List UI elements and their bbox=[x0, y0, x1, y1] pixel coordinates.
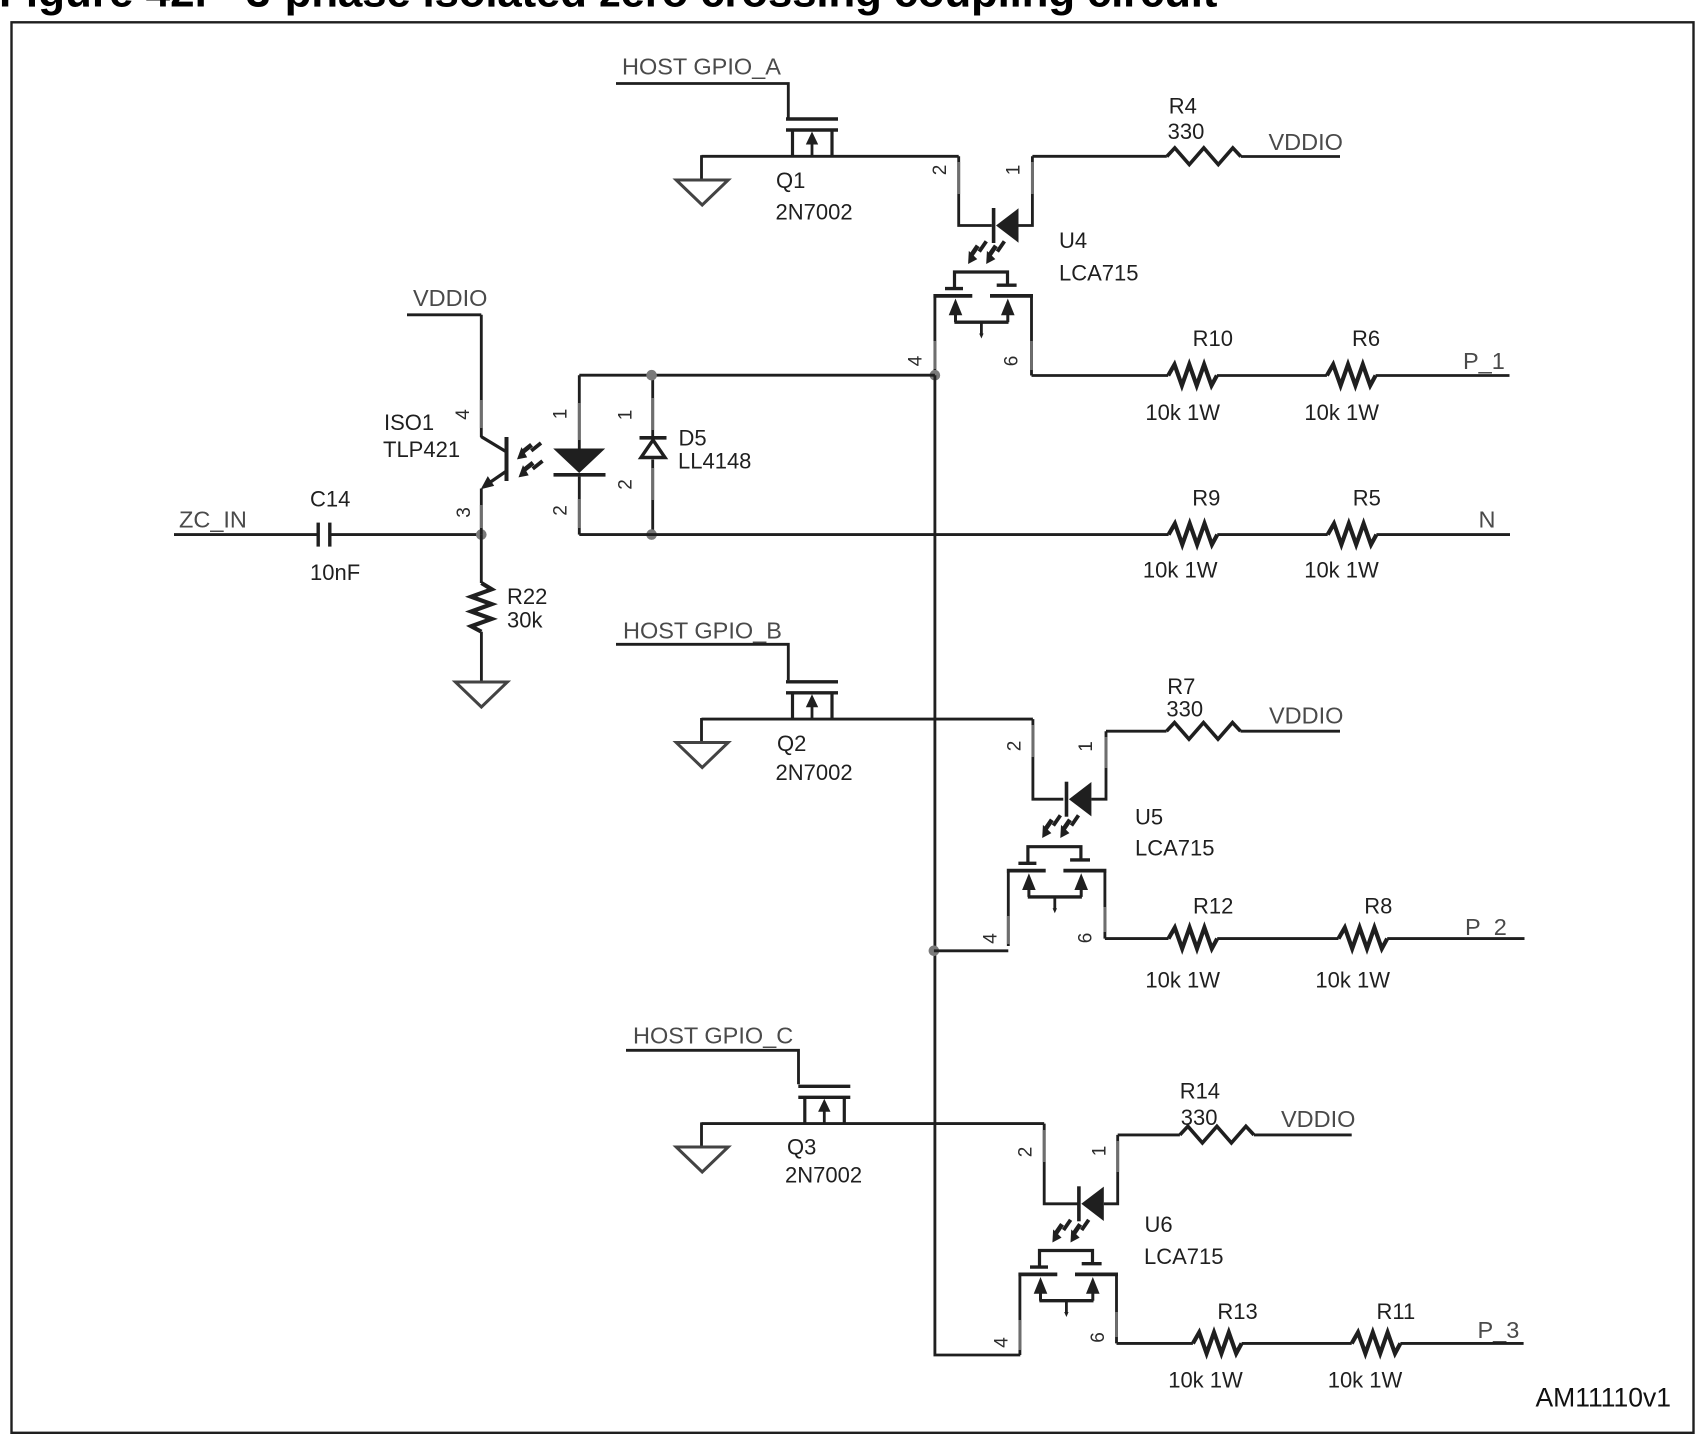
svg-text:1: 1 bbox=[1089, 1146, 1110, 1157]
label U5 LCA715 bbox=[1135, 805, 1215, 861]
resistor R7 bbox=[1167, 723, 1241, 740]
junction (bus / U5 pin 4) bbox=[929, 946, 940, 957]
label R7 330 bbox=[1166, 674, 1203, 722]
pin 2 (U4) bbox=[930, 165, 951, 176]
label R5 10k 1W bbox=[1304, 486, 1381, 583]
label R11 10k 1W bbox=[1328, 1299, 1416, 1392]
wire (bus) bbox=[935, 375, 1020, 1355]
svg-text:AM11110v1: AM11110v1 bbox=[1535, 1383, 1671, 1413]
wire bbox=[702, 155, 959, 158]
svg-text:ISO1: ISO1 bbox=[384, 410, 434, 435]
svg-text:HOST GPIO_B: HOST GPIO_B bbox=[623, 618, 782, 644]
label ISO1 TLP421 bbox=[383, 410, 460, 462]
svg-text:3: 3 bbox=[454, 507, 475, 518]
wire bbox=[1105, 937, 1169, 940]
net label HOST GPIO_A bbox=[616, 54, 788, 118]
svg-text:2: 2 bbox=[1005, 741, 1026, 752]
wire (N net) bbox=[579, 533, 1168, 536]
pin 4 (ISO1) bbox=[453, 409, 474, 420]
svg-text:R4: R4 bbox=[1169, 94, 1197, 119]
resistor R4 bbox=[1167, 148, 1241, 165]
wire bbox=[1032, 374, 1169, 377]
svg-text:R22: R22 bbox=[507, 584, 547, 609]
resistor R5 bbox=[1328, 524, 1377, 545]
svg-text:4: 4 bbox=[906, 355, 927, 366]
wire bbox=[702, 1122, 1045, 1125]
svg-text:2: 2 bbox=[1016, 1147, 1037, 1158]
wire bbox=[1217, 374, 1327, 377]
svg-text:10k 1W: 10k 1W bbox=[1168, 1367, 1243, 1392]
label AM11110v1 bbox=[1535, 1383, 1671, 1413]
svg-text:2N7002: 2N7002 bbox=[776, 200, 853, 225]
label R9 10k 1W bbox=[1143, 486, 1221, 583]
title bbox=[0, 0, 1218, 17]
pin 4 (U4) bbox=[906, 355, 927, 366]
junction (C14 / ISO1 pin 3 / R22) bbox=[476, 529, 487, 540]
svg-text:HOST GPIO_A: HOST GPIO_A bbox=[622, 54, 781, 80]
wire bbox=[1117, 1342, 1193, 1345]
label R12 10k 1W bbox=[1145, 894, 1233, 993]
svg-text:ZC_IN: ZC_IN bbox=[179, 507, 247, 533]
svg-text:R10: R10 bbox=[1193, 326, 1233, 351]
resistor R6 bbox=[1327, 365, 1376, 386]
resistor R8 bbox=[1339, 928, 1388, 949]
svg-text:330: 330 bbox=[1181, 1105, 1218, 1130]
label C14 10nF bbox=[310, 487, 360, 586]
pin 2 (U6) bbox=[1016, 1147, 1037, 1158]
svg-text:30k: 30k bbox=[507, 608, 543, 633]
svg-text:VDDIO: VDDIO bbox=[1269, 129, 1343, 155]
svg-text:1: 1 bbox=[1076, 741, 1097, 752]
svg-text:VDDIO: VDDIO bbox=[413, 285, 487, 311]
svg-text:U6: U6 bbox=[1145, 1212, 1173, 1237]
svg-text:1: 1 bbox=[616, 410, 637, 421]
label R22 30k bbox=[507, 584, 547, 633]
net label VDDIO (ISO1 collector) bbox=[407, 285, 487, 315]
junction (D5 pin 1) bbox=[646, 370, 657, 381]
wire bbox=[1032, 155, 1166, 158]
svg-text:1: 1 bbox=[551, 409, 572, 420]
ground (Q3 source) bbox=[676, 1122, 728, 1172]
net label ZC_IN bbox=[174, 507, 317, 535]
svg-text:LL4148: LL4148 bbox=[678, 449, 751, 474]
pin 1 (U4) bbox=[1004, 165, 1025, 176]
svg-text:N: N bbox=[1479, 507, 1496, 533]
label R4 330 bbox=[1168, 94, 1205, 145]
svg-text:3-phase isolated zero crossing: 3-phase isolated zero crossing coupling … bbox=[246, 0, 1218, 17]
wire bbox=[332, 533, 482, 536]
svg-text:2: 2 bbox=[930, 165, 951, 176]
svg-text:10k 1W: 10k 1W bbox=[1304, 558, 1379, 583]
svg-text:6: 6 bbox=[1076, 933, 1097, 944]
label D5 LL4148 bbox=[678, 426, 751, 474]
net label VDDIO bbox=[1241, 703, 1344, 732]
label Q2 2N7002 bbox=[776, 731, 853, 785]
svg-text:10k 1W: 10k 1W bbox=[1315, 968, 1390, 993]
svg-text:R11: R11 bbox=[1377, 1299, 1416, 1324]
wire bbox=[934, 949, 1008, 952]
svg-text:P_1: P_1 bbox=[1463, 348, 1505, 374]
opto-relay U6 bbox=[1018, 1124, 1118, 1355]
pin 6 (U5) bbox=[1076, 933, 1097, 944]
transistor Q3 bbox=[798, 1086, 850, 1123]
transistor Q2 bbox=[786, 682, 838, 719]
svg-text:10k 1W: 10k 1W bbox=[1328, 1367, 1403, 1392]
svg-text:U5: U5 bbox=[1135, 805, 1163, 830]
net label HOST GPIO_C bbox=[626, 1023, 799, 1085]
svg-text:R14: R14 bbox=[1180, 1079, 1220, 1104]
svg-text:10k 1W: 10k 1W bbox=[1304, 400, 1379, 425]
wire bbox=[1242, 1342, 1352, 1345]
wire bbox=[1118, 1133, 1180, 1136]
pin 4 (U6) bbox=[992, 1337, 1013, 1348]
label R13 10k 1W bbox=[1168, 1299, 1258, 1392]
pin 1 (D5) bbox=[616, 410, 637, 421]
svg-text:VDDIO: VDDIO bbox=[1281, 1106, 1355, 1132]
net label P_2 bbox=[1387, 914, 1524, 940]
wire bbox=[702, 718, 1033, 721]
ground (Q2 source) bbox=[676, 718, 728, 768]
label R8 10k 1W bbox=[1315, 894, 1392, 993]
svg-text:10k 1W: 10k 1W bbox=[1145, 968, 1220, 993]
pin 1 (ISO1) bbox=[551, 409, 572, 420]
label R10 10k 1W bbox=[1145, 326, 1233, 425]
svg-text:C14: C14 bbox=[310, 487, 350, 512]
svg-text:Q1: Q1 bbox=[776, 168, 805, 193]
net label VDDIO bbox=[1241, 129, 1343, 157]
svg-text:U4: U4 bbox=[1059, 228, 1087, 253]
svg-text:2: 2 bbox=[551, 505, 572, 516]
svg-text:10nF: 10nF bbox=[310, 560, 360, 585]
net label P_1 bbox=[1376, 348, 1510, 376]
wire bbox=[1217, 937, 1338, 940]
resistor R12 bbox=[1169, 928, 1218, 949]
svg-text:2: 2 bbox=[616, 479, 637, 490]
svg-text:TLP421: TLP421 bbox=[383, 437, 460, 462]
ground (Q1 source) bbox=[676, 155, 728, 205]
pin 1 (U6) bbox=[1089, 1146, 1110, 1157]
net label P_3 bbox=[1400, 1317, 1523, 1343]
capacitor C14 bbox=[318, 523, 330, 547]
svg-text:6: 6 bbox=[1088, 1332, 1109, 1343]
svg-text:330: 330 bbox=[1166, 697, 1203, 722]
label R14 330 bbox=[1180, 1079, 1220, 1131]
net label HOST GPIO_B bbox=[616, 618, 788, 681]
label Q3 2N7002 bbox=[785, 1135, 862, 1188]
resistor R9 bbox=[1169, 524, 1218, 545]
svg-text:4: 4 bbox=[992, 1337, 1013, 1348]
pin 1 (U5) bbox=[1076, 741, 1097, 752]
label R6 10k 1W bbox=[1304, 326, 1380, 425]
svg-text:R8: R8 bbox=[1364, 894, 1392, 919]
pin 6 (U4) bbox=[1002, 356, 1023, 367]
wire bbox=[1106, 730, 1167, 733]
resistor R13 bbox=[1193, 1332, 1242, 1353]
resistor R10 bbox=[1168, 365, 1217, 386]
resistor R11 bbox=[1352, 1332, 1401, 1353]
svg-text:6: 6 bbox=[1002, 356, 1023, 367]
svg-text:1: 1 bbox=[1004, 165, 1025, 176]
svg-text:LCA715: LCA715 bbox=[1059, 261, 1139, 286]
svg-text:HOST GPIO_C: HOST GPIO_C bbox=[633, 1023, 793, 1049]
svg-text:D5: D5 bbox=[679, 426, 707, 451]
svg-text:P_2: P_2 bbox=[1465, 914, 1507, 940]
wire bbox=[1217, 533, 1327, 536]
svg-text:P_3: P_3 bbox=[1478, 1317, 1520, 1343]
pin 3 (ISO1) bbox=[454, 507, 475, 518]
label U4 LCA715 bbox=[1059, 228, 1139, 286]
pin 4 (U5) bbox=[981, 933, 1002, 944]
svg-text:VDDIO: VDDIO bbox=[1269, 703, 1343, 729]
svg-text:R7: R7 bbox=[1167, 674, 1195, 699]
net label N bbox=[1376, 507, 1510, 535]
svg-text:Figure 42.: Figure 42. bbox=[0, 0, 207, 17]
svg-text:R5: R5 bbox=[1353, 486, 1381, 511]
junction (bus / U4 pin 4) bbox=[930, 370, 941, 381]
pin 2 (U5) bbox=[1005, 741, 1026, 752]
transistor Q1 bbox=[786, 119, 838, 156]
svg-text:10k 1W: 10k 1W bbox=[1145, 400, 1220, 425]
label U6 LCA715 bbox=[1144, 1212, 1224, 1269]
pin 2 (D5) bbox=[616, 479, 637, 490]
svg-text:R12: R12 bbox=[1193, 894, 1233, 919]
svg-text:R6: R6 bbox=[1352, 326, 1380, 351]
wire bbox=[579, 374, 935, 377]
pin 6 (U6) bbox=[1088, 1332, 1109, 1343]
ground (R22) bbox=[455, 682, 507, 707]
opto-relay U5 bbox=[1007, 719, 1107, 946]
svg-text:LCA715: LCA715 bbox=[1135, 836, 1215, 861]
pin 2 (ISO1) bbox=[551, 505, 572, 516]
svg-text:R9: R9 bbox=[1192, 486, 1220, 511]
resistor R22 bbox=[471, 535, 492, 682]
svg-text:Q3: Q3 bbox=[787, 1135, 816, 1160]
label Q1 2N7002 bbox=[776, 168, 853, 225]
svg-text:Q2: Q2 bbox=[777, 731, 806, 756]
svg-text:LCA715: LCA715 bbox=[1144, 1244, 1224, 1269]
svg-text:330: 330 bbox=[1168, 119, 1205, 144]
net label VDDIO bbox=[1254, 1106, 1356, 1135]
svg-text:R13: R13 bbox=[1217, 1299, 1257, 1324]
svg-text:10k 1W: 10k 1W bbox=[1143, 558, 1218, 583]
svg-text:2N7002: 2N7002 bbox=[785, 1163, 862, 1188]
svg-text:4: 4 bbox=[453, 409, 474, 420]
svg-text:2N7002: 2N7002 bbox=[776, 760, 853, 785]
svg-text:4: 4 bbox=[981, 933, 1002, 944]
junction (D5 pin 2) bbox=[646, 529, 657, 540]
diode D5 bbox=[640, 375, 667, 534]
opto-relay U4 bbox=[933, 156, 1033, 375]
optocoupler ISO1 bbox=[481, 315, 606, 535]
resistor R14 bbox=[1180, 1126, 1254, 1143]
